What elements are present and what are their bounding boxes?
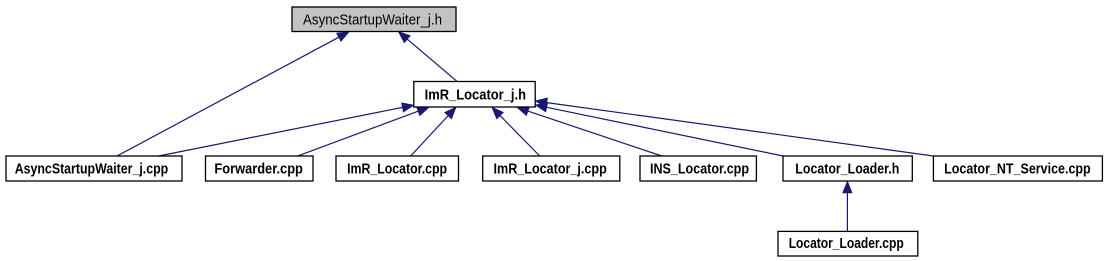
edge Forwarder.cpp -> ImR_Locator_j.h bbox=[298, 107, 430, 156]
svg-text:Locator_Loader.h: Locator_Loader.h bbox=[795, 161, 899, 178]
svg-text:ImR_Locator_j.h: ImR_Locator_j.h bbox=[425, 86, 526, 103]
node Forwarder.cpp bbox=[206, 156, 314, 181]
edge ImR_Locator_j.h -> AsyncStartupWaiter_j.h bbox=[399, 32, 458, 82]
svg-text:Locator_Loader.cpp: Locator_Loader.cpp bbox=[789, 235, 904, 252]
node Locator_NT_Service.cpp bbox=[933, 156, 1102, 181]
svg-text:Forwarder.cpp: Forwarder.cpp bbox=[214, 161, 303, 178]
node AsyncStartupWaiter_j.h (current file) bbox=[292, 7, 456, 32]
edge ImR_Locator_j.cpp -> ImR_Locator_j.h bbox=[492, 107, 540, 156]
edge AsyncStartupWaiter_j.cpp -> AsyncStartupWaiter_j.h bbox=[117, 32, 349, 156]
svg-text:ImR_Locator_j.cpp: ImR_Locator_j.cpp bbox=[494, 161, 607, 178]
edge INS_Locator.cpp -> ImR_Locator_j.h bbox=[517, 107, 662, 156]
node INS_Locator.cpp bbox=[640, 156, 756, 181]
svg-text:Locator_NT_Service.cpp: Locator_NT_Service.cpp bbox=[944, 161, 1091, 178]
edge Locator_Loader.cpp -> Locator_Loader.h bbox=[843, 181, 852, 231]
node Locator_Loader.cpp bbox=[778, 231, 918, 256]
edge AsyncStartupWaiter_j.cpp -> ImR_Locator_j.h bbox=[159, 103, 414, 156]
svg-text:ImR_Locator.cpp: ImR_Locator.cpp bbox=[347, 161, 447, 178]
node Locator_Loader.h bbox=[783, 156, 912, 181]
edge Locator_Loader.h -> ImR_Locator_j.h bbox=[535, 103, 783, 156]
node ImR_Locator_j.h bbox=[414, 82, 535, 108]
edge Locator_NT_Service.cpp -> ImR_Locator_j.h bbox=[535, 98, 933, 156]
svg-text:AsyncStartupWaiter_j.cpp: AsyncStartupWaiter_j.cpp bbox=[15, 161, 169, 178]
svg-text:INS_Locator.cpp: INS_Locator.cpp bbox=[650, 161, 749, 178]
node ImR_Locator.cpp bbox=[336, 156, 459, 181]
node ImR_Locator_j.cpp bbox=[483, 156, 620, 181]
edge ImR_Locator.cpp -> ImR_Locator_j.h bbox=[411, 107, 456, 156]
node AsyncStartupWaiter_j.cpp bbox=[6, 156, 182, 181]
svg-text:AsyncStartupWaiter_j.h: AsyncStartupWaiter_j.h bbox=[303, 13, 442, 29]
